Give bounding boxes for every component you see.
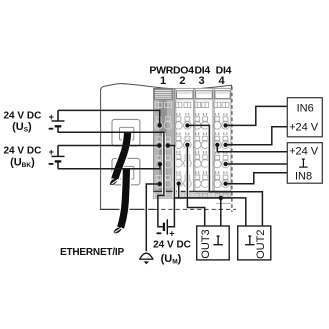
ethernet port X1 (RJ45) (112, 119, 140, 145)
PWR module head (striped) (154, 89, 172, 100)
I/O module column 1 (PWR) body (153, 88, 174, 191)
sensor box IN6/+24V (287, 98, 322, 137)
junction dot PWR 1.2 (157, 143, 161, 147)
module 3 terminal icons (194, 102, 209, 187)
svg-text:+24 V: +24 V (289, 121, 319, 133)
svg-text:24 V DC: 24 V DC (153, 240, 191, 251)
module 2 head box (177, 91, 193, 99)
svg-text:IN6: IN6 (297, 102, 314, 114)
svg-text:ETHERNET/IP: ETHERNET/IP (60, 247, 124, 258)
wire DI4 4.4 to IN8 (226, 173, 288, 184)
junction dot 2.2 (185, 143, 189, 147)
rail branch to OUT3 (220, 198, 222, 226)
wire US- to UM loop (58, 132, 164, 227)
wire US+ to PWR 1.1 (58, 110, 160, 125)
junction dot rail (219, 196, 223, 200)
svg-text:3: 3 (198, 75, 204, 87)
junction dot PWR 1.3 (158, 162, 162, 166)
svg-text:2: 2 (179, 75, 185, 87)
head separator line (153, 99, 231, 101)
junction dot 2.1 (185, 123, 189, 127)
gnd symbol in box2 (299, 159, 307, 167)
module bottom edge (153, 190, 231, 192)
ground (functional earth) symbol (140, 253, 153, 259)
wire DO4 2.2 to OUT3 (187, 145, 204, 226)
I/O module column 3 body (195, 88, 213, 191)
junction dot 4.2 (223, 143, 227, 147)
svg-text:+: + (49, 112, 54, 122)
battery UBK (24 V DC) (49, 146, 65, 169)
wire DI4 4.3 to gnd box2 (226, 163, 288, 165)
DIN rail dashed line (154, 208, 236, 210)
module 4 terminal icons (214, 102, 230, 187)
module 2 terminal icons (175, 102, 192, 187)
ethernet port X2 (RJ45) (112, 158, 140, 184)
battery UM (24 V DC) plates (163, 223, 165, 231)
svg-text:(US): (US) (12, 121, 32, 134)
junction dot PWR 1.1 (158, 123, 162, 127)
junction dot PWR 2.2 (166, 143, 170, 147)
junction dot 4.3 (223, 162, 227, 166)
junction dot PWR 1.4 (158, 182, 162, 186)
svg-text:24 V DC: 24 V DC (4, 146, 42, 157)
svg-text:+: + (49, 147, 54, 157)
wire DI4 4.2 to +24V box1 (226, 127, 288, 145)
svg-text:4: 4 (219, 75, 226, 87)
battery US (24 V DC) (49, 110, 65, 132)
wire PWR 1.4 to functional earth (146, 184, 160, 251)
svg-text:24 V DC: 24 V DC (4, 110, 42, 121)
I/O module column 2 body (176, 88, 194, 191)
wire halos (162, 133, 166, 195)
foot lower edge right (216, 202, 231, 204)
svg-text:IN8: IN8 (295, 170, 312, 182)
svg-text:(UM): (UM) (161, 253, 182, 266)
wire PWR 2.2 to UM+ (168, 146, 175, 227)
junction dot 4.4 (223, 182, 227, 186)
svg-text:OUT3: OUT3 (200, 229, 212, 258)
module 1 terminal icons (155, 102, 172, 188)
I/O module column 4 body (214, 88, 231, 191)
svg-text:+: + (169, 228, 174, 238)
wire DI4 4.1 to IN6 (226, 106, 288, 125)
svg-text:1: 1 (160, 75, 166, 87)
module 4 head box (215, 91, 230, 99)
actuator box OUT2 (238, 226, 271, 260)
bus coupler body outline (101, 84, 232, 210)
wire DO4 2.1 to OUT2 (187, 125, 262, 226)
junction dot 3.2 (215, 143, 219, 147)
svg-text:OUT2: OUT2 (255, 230, 267, 259)
ethernet cable 2 (121, 169, 127, 228)
bus coupler bottom edge (100, 208, 154, 210)
junction dot 1.4 (177, 181, 181, 185)
wire DI4 3.2 to +24V box2 (217, 145, 287, 152)
sensor box +24V/gnd/IN8 (287, 143, 322, 184)
module continuation dashed edge (231, 87, 233, 213)
junction dot 4.1 (223, 123, 227, 127)
ground rail wire (174, 198, 245, 226)
wire DO4 1.4 to rail (178, 184, 180, 198)
svg-text:+24 V: +24 V (289, 146, 319, 158)
ethernet cable 1 (115, 133, 128, 179)
wire UBK+ to PWR 1.2 (58, 145, 159, 147)
actuator box OUT3 (197, 226, 230, 260)
wire UBK- to PWR 1.3 (58, 164, 160, 169)
module 3 head box (196, 91, 213, 99)
module foot band (153, 192, 231, 198)
